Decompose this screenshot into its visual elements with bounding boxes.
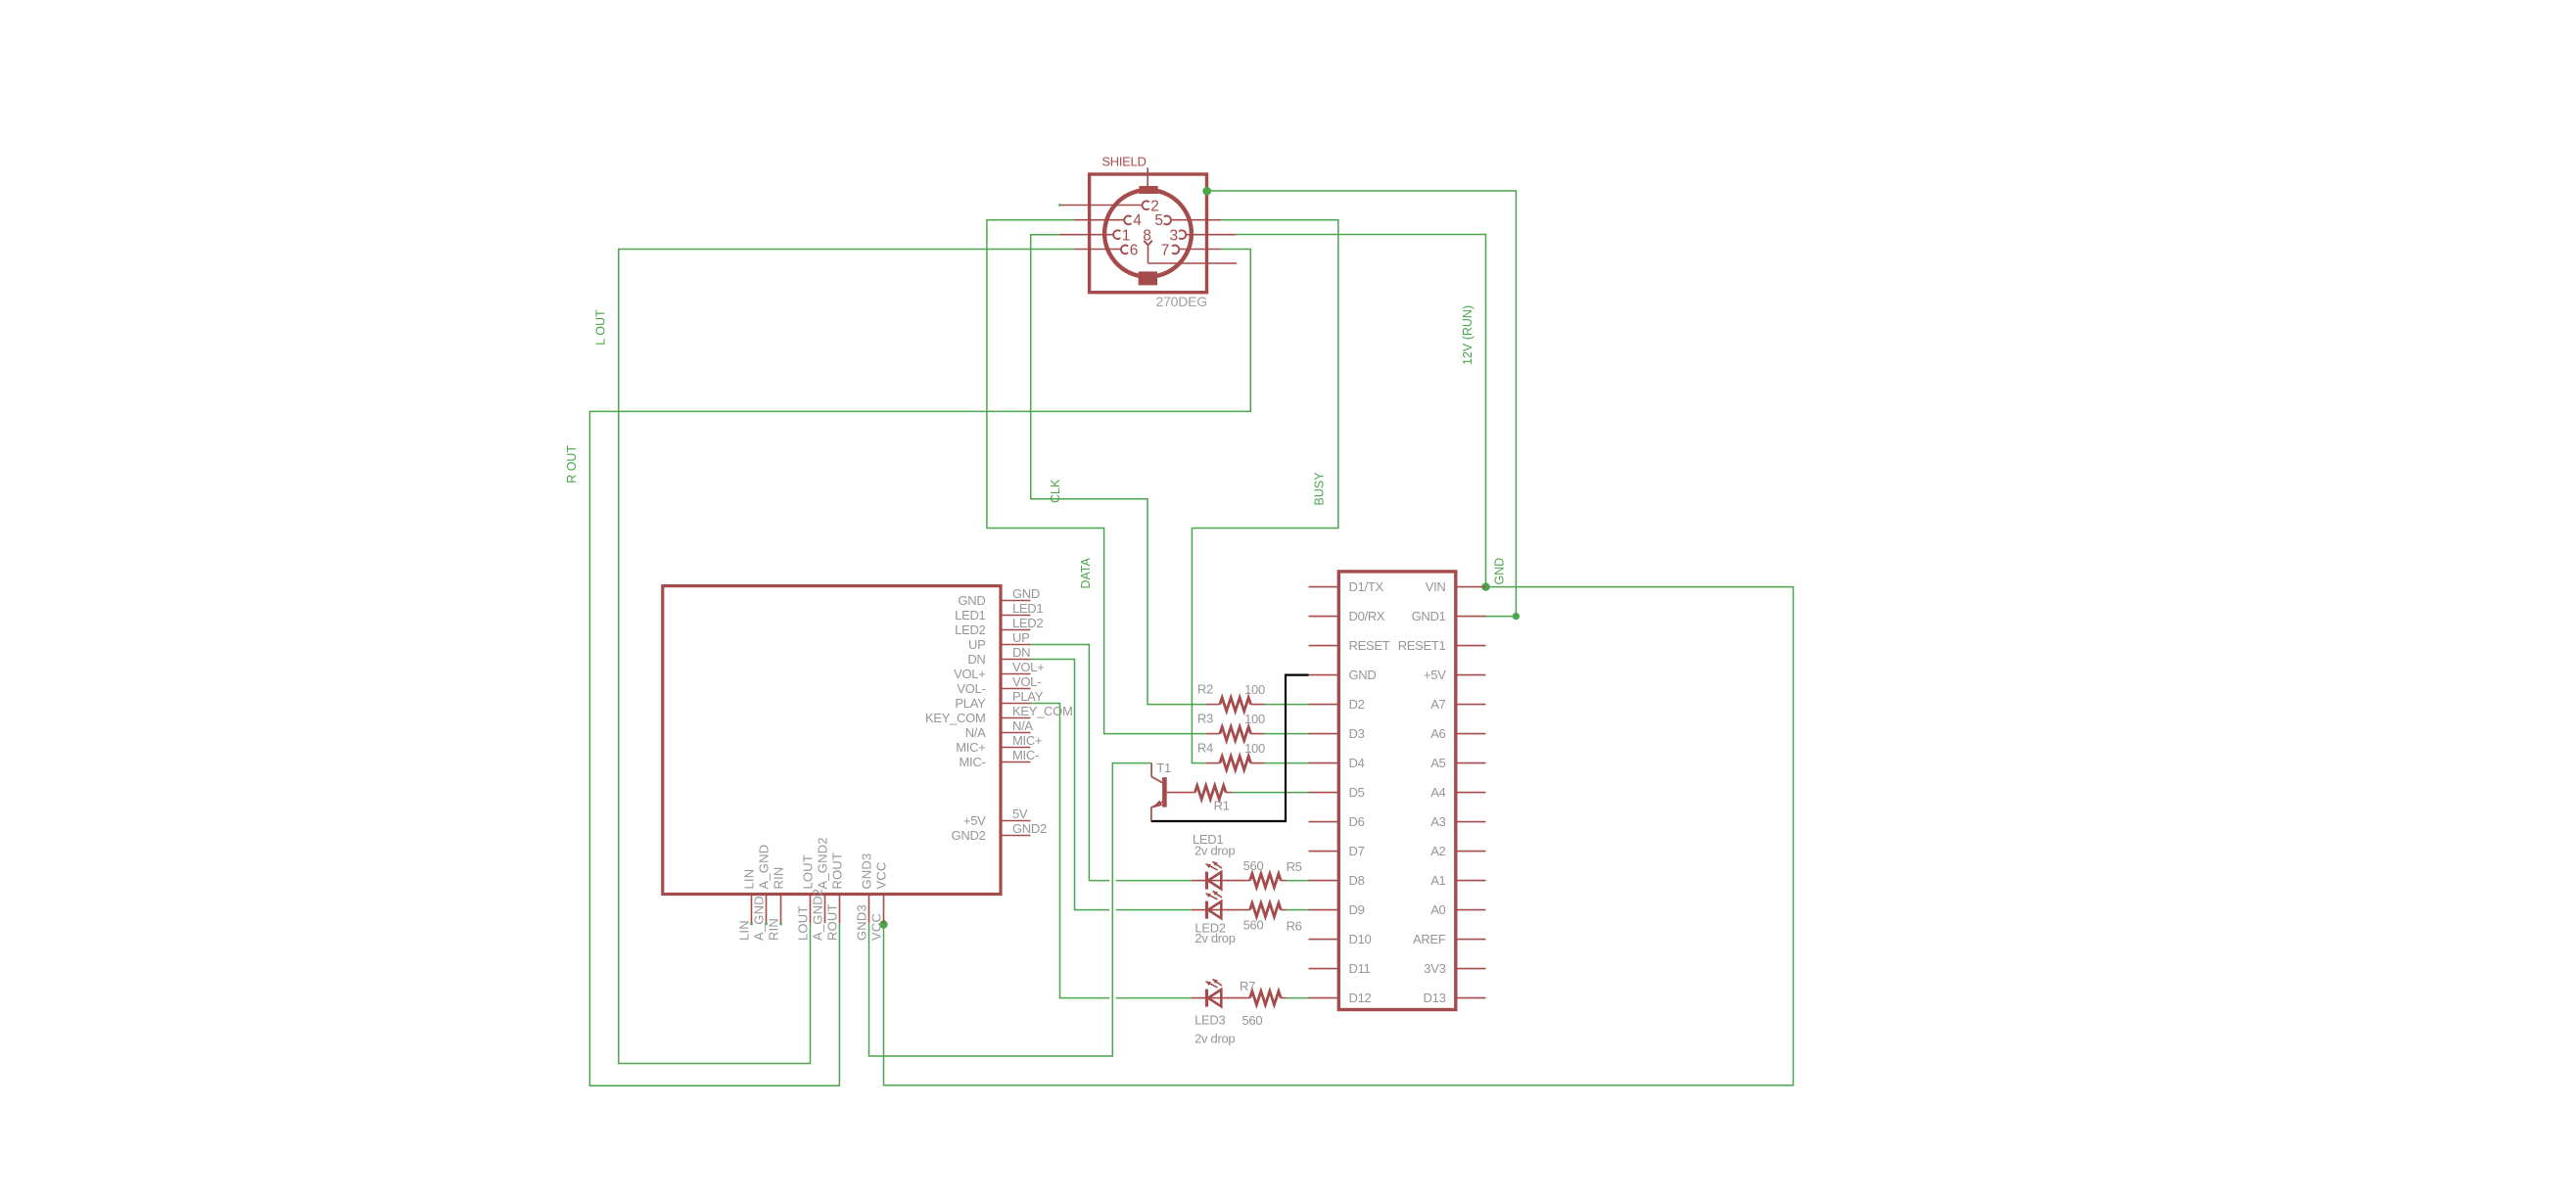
svg-text:A_GND: A_GND [752, 896, 767, 941]
svg-text:MIC-: MIC- [960, 755, 986, 769]
svg-text:6: 6 [1130, 243, 1139, 259]
svg-text:DN: DN [967, 652, 985, 667]
svg-text:L OUT: L OUT [594, 309, 608, 346]
connector X1 DIN-8 270DEG outline [1090, 174, 1207, 293]
pin A1 (Arduino right) [1430, 873, 1485, 888]
LED LED3 [1192, 979, 1250, 1045]
svg-text:GND2: GND2 [952, 828, 986, 843]
svg-text:3V3: 3V3 [1424, 961, 1445, 976]
LED LED2 [1192, 891, 1250, 945]
svg-text:560: 560 [1243, 858, 1264, 873]
svg-text:A2: A2 [1430, 844, 1445, 858]
svg-text:D6: D6 [1349, 814, 1365, 829]
svg-text:VCC: VCC [874, 861, 889, 889]
svg-text:KEY_COM: KEY_COM [925, 711, 985, 725]
pin A_GND (module bottom) [752, 845, 772, 941]
svg-text:R5: R5 [1287, 859, 1302, 874]
svg-text:A_GND: A_GND [757, 845, 772, 890]
pin 2 [1058, 198, 1159, 214]
svg-text:R2: R2 [1197, 682, 1213, 697]
pin D6 (Arduino left) [1309, 814, 1365, 829]
junction at VCC pin [879, 920, 887, 928]
svg-text:VOL-: VOL- [1012, 674, 1041, 689]
pin 5 [1154, 212, 1221, 229]
pin D9 (Arduino left) [1309, 902, 1365, 917]
svg-text:A3: A3 [1430, 814, 1445, 829]
wire R6 to D9 [1287, 909, 1309, 911]
pin D5 (Arduino left) [1309, 785, 1365, 800]
wire net DN: module DN to LED2 [1031, 660, 1192, 910]
svg-text:270DEG: 270DEG [1156, 294, 1208, 309]
svg-text:UP: UP [968, 637, 985, 652]
pin D2 (Arduino left) [1309, 697, 1365, 712]
svg-text:R4: R4 [1197, 741, 1213, 756]
pin A4 (Arduino right) [1430, 785, 1485, 800]
pin 3V3 (Arduino right) [1424, 961, 1485, 976]
pin LIN (module bottom) [737, 869, 757, 941]
svg-text:R7: R7 [1240, 979, 1255, 993]
junction at DIN shield corner [1202, 187, 1211, 196]
svg-text:A0: A0 [1430, 902, 1445, 917]
svg-text:VOL+: VOL+ [1012, 660, 1044, 674]
pin RESET (Arduino left) [1309, 638, 1390, 653]
wire R1 to D5 [1232, 792, 1308, 794]
svg-text:LED2: LED2 [1012, 616, 1043, 630]
pin D8 (Arduino left) [1309, 873, 1365, 888]
pin GND3 (module bottom) [855, 853, 874, 941]
pin MIC+ (module right) [956, 733, 1042, 755]
svg-text:5V: 5V [1012, 807, 1028, 821]
svg-text:12V (RUN): 12V (RUN) [1461, 305, 1475, 365]
svg-text:5: 5 [1154, 212, 1163, 229]
svg-text:100: 100 [1244, 682, 1265, 697]
svg-text:T1: T1 [1156, 761, 1171, 775]
svg-text:7: 7 [1161, 243, 1170, 259]
svg-text:A_GND2: A_GND2 [816, 837, 830, 889]
svg-text:D12: D12 [1349, 991, 1372, 1005]
svg-text:R3: R3 [1197, 712, 1213, 726]
pin VCC (module bottom) [869, 861, 889, 941]
svg-text:MIC+: MIC+ [956, 740, 985, 755]
pin N/A (module right) [965, 718, 1034, 740]
pin A2 (Arduino right) [1430, 844, 1485, 858]
svg-text:2v drop: 2v drop [1194, 931, 1235, 945]
pin 6 [1074, 243, 1138, 259]
wire R2 to D2 [1265, 704, 1309, 706]
pin GND2 (module right) [952, 821, 1047, 843]
svg-text:LOUT: LOUT [801, 854, 816, 889]
junction at VIN pin [1481, 582, 1489, 590]
svg-text:D11: D11 [1349, 961, 1371, 976]
svg-text:LED3: LED3 [1194, 1013, 1225, 1028]
module U1 MP3 board outline [663, 586, 1001, 895]
svg-text:D8: D8 [1349, 873, 1365, 888]
pin VOL+ (module right) [954, 660, 1044, 681]
resistor R2 100 [1197, 682, 1265, 712]
pin 7 [1161, 243, 1221, 259]
pin GND1 (Arduino right) [1412, 609, 1486, 623]
svg-text:VOL-: VOL- [957, 681, 985, 696]
svg-text:560: 560 [1242, 1013, 1263, 1028]
pin D4 (Arduino left) [1309, 756, 1365, 770]
svg-text:A7: A7 [1430, 697, 1445, 712]
svg-text:MIC-: MIC- [1012, 748, 1039, 762]
pin 4 [1074, 212, 1142, 229]
svg-text:A1: A1 [1430, 873, 1445, 888]
svg-text:AREF: AREF [1413, 932, 1446, 946]
wire R3 to D3 [1265, 733, 1309, 735]
svg-text:VIN: VIN [1426, 579, 1446, 594]
pin RESET1 (Arduino right) [1398, 638, 1486, 653]
svg-text:GND3: GND3 [855, 904, 869, 941]
resistor R4 100 [1197, 741, 1265, 770]
svg-text:100: 100 [1244, 741, 1265, 756]
Arduino U2 outline [1338, 572, 1456, 1010]
pin LED2 (module right) [955, 616, 1043, 637]
svg-text:2v drop: 2v drop [1194, 1032, 1235, 1046]
svg-text:GND3: GND3 [860, 853, 874, 890]
svg-text:N/A: N/A [1012, 718, 1033, 733]
svg-text:D7: D7 [1349, 844, 1365, 858]
svg-text:D9: D9 [1349, 902, 1365, 917]
pin UP (module right) [968, 630, 1030, 652]
pin PLAY (module right) [955, 689, 1043, 711]
wire R4 to D4 [1265, 762, 1309, 764]
svg-text:+5V: +5V [963, 813, 986, 828]
svg-text:MIC+: MIC+ [1012, 733, 1042, 748]
svg-text:ROUT: ROUT [830, 853, 845, 890]
svg-text:A6: A6 [1430, 726, 1445, 741]
wire net DATA: DIN pin4 to R3 [987, 220, 1206, 734]
svg-text:D1/TX: D1/TX [1349, 579, 1384, 594]
resistor R5 560 [1243, 858, 1302, 888]
svg-text:DATA: DATA [1079, 557, 1093, 588]
svg-text:+5V: +5V [1424, 668, 1446, 682]
wire net 12V RUN: DIN pin3 to VIN to VCC loop [884, 235, 1794, 1085]
svg-text:R6: R6 [1287, 918, 1302, 933]
svg-text:LED2: LED2 [955, 623, 985, 637]
pin GND (Arduino left) [1309, 668, 1377, 682]
pin AREF (Arduino right) [1413, 932, 1485, 946]
wire net KEY: GND3 to T1 base [869, 763, 1152, 1056]
svg-text:LOUT: LOUT [796, 906, 811, 941]
pin LOUT (module bottom) [796, 854, 816, 941]
pin A6 (Arduino right) [1430, 726, 1485, 741]
pin ROUT (module bottom) [825, 853, 845, 941]
svg-text:PLAY: PLAY [1012, 689, 1044, 704]
svg-text:2v drop: 2v drop [1194, 843, 1235, 857]
pin MIC- (module right) [960, 748, 1039, 769]
wire R7 to D12 [1287, 997, 1309, 999]
svg-text:D5: D5 [1349, 785, 1365, 800]
pin VIN (Arduino right) [1426, 579, 1486, 594]
svg-text:D2: D2 [1349, 697, 1365, 712]
pin D11 (Arduino left) [1309, 961, 1371, 976]
svg-text:RIN: RIN [767, 918, 781, 941]
svg-text:A_GND2: A_GND2 [811, 889, 825, 941]
pin RIN (module bottom) [767, 867, 786, 942]
stub tip speck [779, 923, 781, 926]
pin 1 [1060, 227, 1131, 244]
wire net L OUT: DIN pin6 to LOUT [619, 250, 1074, 1064]
pin A_GND2 (module bottom) [811, 837, 830, 941]
wire GND black: T1 emitter to Arduino GND [1151, 675, 1309, 821]
svg-text:A4: A4 [1430, 785, 1445, 800]
svg-text:GND2: GND2 [1012, 821, 1047, 836]
pin D12 (Arduino left) [1309, 991, 1372, 1005]
wire net PLAY: module PLAY to LED3 [1031, 704, 1192, 998]
svg-text:GND: GND [1349, 668, 1377, 682]
svg-text:LED1: LED1 [955, 608, 985, 623]
svg-text:560: 560 [1243, 918, 1264, 933]
svg-text:VCC: VCC [869, 913, 884, 941]
junction at GND1 corner [1513, 613, 1520, 620]
pin D13 (Arduino right) [1424, 991, 1486, 1005]
pin VOL- (module right) [957, 674, 1041, 696]
svg-text:LED1: LED1 [1012, 601, 1043, 616]
svg-text:D4: D4 [1349, 756, 1365, 770]
stub tip speck [750, 923, 752, 926]
svg-text:3: 3 [1170, 227, 1179, 244]
svg-text:RESET1: RESET1 [1398, 638, 1446, 653]
resistor R6 560 [1243, 903, 1302, 934]
svg-text:VOL+: VOL+ [954, 667, 985, 681]
svg-text:GND: GND [1493, 558, 1507, 585]
wire net R OUT: DIN pin7 to ROUT [589, 250, 1250, 1086]
svg-text:4: 4 [1133, 212, 1142, 229]
svg-text:D10: D10 [1349, 932, 1372, 946]
svg-text:R1: R1 [1214, 799, 1230, 813]
wire net UP: module UP to LED1 [1031, 645, 1192, 881]
svg-text:D13: D13 [1424, 991, 1446, 1005]
pin D0/RX (Arduino left) [1309, 609, 1385, 623]
svg-text:LIN: LIN [737, 920, 752, 941]
svg-text:KEY_COM: KEY_COM [1012, 704, 1072, 718]
pin D7 (Arduino left) [1309, 844, 1365, 858]
pin D3 (Arduino left) [1309, 726, 1365, 741]
svg-text:BUSY: BUSY [1313, 472, 1327, 506]
pin 8 [1143, 227, 1237, 263]
svg-text:CLK: CLK [1049, 479, 1062, 503]
pin D1/TX (Arduino left) [1309, 579, 1384, 594]
wire R5 to D8 [1287, 880, 1309, 882]
svg-text:LIN: LIN [742, 869, 757, 890]
resistor R3 100 [1197, 712, 1265, 741]
pin +5V (module right) [963, 807, 1031, 828]
svg-text:N/A: N/A [965, 725, 986, 740]
pin KEY_COM (module right) [925, 704, 1072, 725]
svg-text:100: 100 [1244, 712, 1265, 726]
svg-text:GND1: GND1 [1412, 609, 1446, 623]
pin A7 (Arduino right) [1430, 697, 1485, 712]
LED LED1 [1192, 832, 1250, 890]
pin DN (module right) [967, 645, 1030, 667]
wire net CLK: DIN pin1 to R2 [1031, 235, 1206, 705]
svg-text:D3: D3 [1349, 726, 1365, 741]
wire net BUSY: DIN pin5 to R4 [1192, 220, 1337, 763]
svg-text:DN: DN [1012, 645, 1030, 660]
svg-text:PLAY: PLAY [955, 696, 986, 711]
svg-text:RESET: RESET [1349, 638, 1390, 653]
pin A0 (Arduino right) [1430, 902, 1485, 917]
stub tip speck [765, 923, 767, 926]
pin +5V (Arduino right) [1424, 668, 1486, 682]
pin GND (module right) [959, 586, 1041, 608]
svg-text:A5: A5 [1430, 756, 1445, 770]
svg-text:ROUT: ROUT [825, 903, 840, 941]
transistor T1 [1151, 761, 1171, 821]
wire net GND (shield to GND1) [1207, 191, 1517, 617]
svg-text:GND: GND [1012, 586, 1040, 601]
svg-text:GND: GND [959, 593, 986, 608]
svg-text:RIN: RIN [772, 867, 786, 890]
resistor R1 [1167, 786, 1233, 813]
svg-text:SHIELD: SHIELD [1101, 154, 1146, 168]
svg-text:UP: UP [1012, 630, 1029, 645]
pin A5 (Arduino right) [1430, 756, 1485, 770]
pin D10 (Arduino left) [1309, 932, 1372, 946]
resistor R7 560 [1240, 979, 1287, 1028]
pin SHIELD lead [1147, 167, 1148, 188]
svg-text:R OUT: R OUT [565, 445, 579, 484]
svg-text:D0/RX: D0/RX [1349, 609, 1385, 623]
pin A3 (Arduino right) [1430, 814, 1485, 829]
pin 3 [1170, 227, 1237, 244]
pin LED1 (module right) [955, 601, 1043, 623]
